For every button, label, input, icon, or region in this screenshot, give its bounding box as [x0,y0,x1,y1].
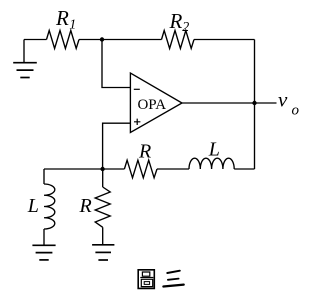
wire left branch to ground [43,229,45,245]
wire R1 to node A and on to R2 [79,39,162,41]
caption 圖三 (drawn as strokes) [138,270,184,289]
wire right rail (vertical) [254,40,256,170]
wire node A to inverting input [102,40,130,88]
wire L to right rail corner [234,168,254,170]
resistor R2 [162,31,195,49]
node B (output node) [252,101,256,105]
svg-text:L: L [27,195,39,217]
node A (junction of R1, R2, inverting input) [100,37,104,41]
svg-text:R: R [55,6,69,30]
resistor R (middle branch, vertical) [95,187,110,227]
ground G2 (left bottom) [32,245,55,260]
wire R to L (bottom series) [157,168,189,170]
label R2 [169,9,190,35]
svg-text:1: 1 [69,18,76,33]
node C (junction of +input, L, R branches) [100,167,104,171]
caption glyph 三 [163,271,183,287]
resistor R1 [47,31,80,49]
wire non-inverting input to node C [103,123,131,169]
caption glyph 圖 [138,270,154,289]
inductor L (bottom series) [189,158,234,169]
op-amp U1 [130,73,182,133]
svg-text:v: v [278,88,288,112]
op-amp plus sign [134,119,140,125]
resistor R (bottom series) [124,160,157,178]
wire middle branch top [102,169,104,187]
wire R2 to right rail [194,39,255,41]
svg-text:2: 2 [182,20,189,35]
ground G1 (top-left) [13,40,37,78]
svg-text:R: R [138,141,151,163]
inductor L (left branch, vertical) [44,184,55,229]
label R1 [55,6,76,33]
svg-text:L: L [208,138,220,160]
ground G3 (middle bottom) [92,245,114,260]
wire ground to R1 [24,39,47,41]
svg-text:R: R [79,195,92,217]
svg-text:OPA: OPA [137,97,166,113]
wire middle branch to ground [102,227,104,245]
svg-text:R: R [169,9,183,33]
label vo [278,88,300,119]
svg-text:o: o [292,103,300,119]
op-amp minus sign [134,88,140,90]
wire left branch top [43,169,45,184]
wire op-amp output to node B and vo stub [182,102,277,104]
wire bottom rail left segment [44,168,124,170]
